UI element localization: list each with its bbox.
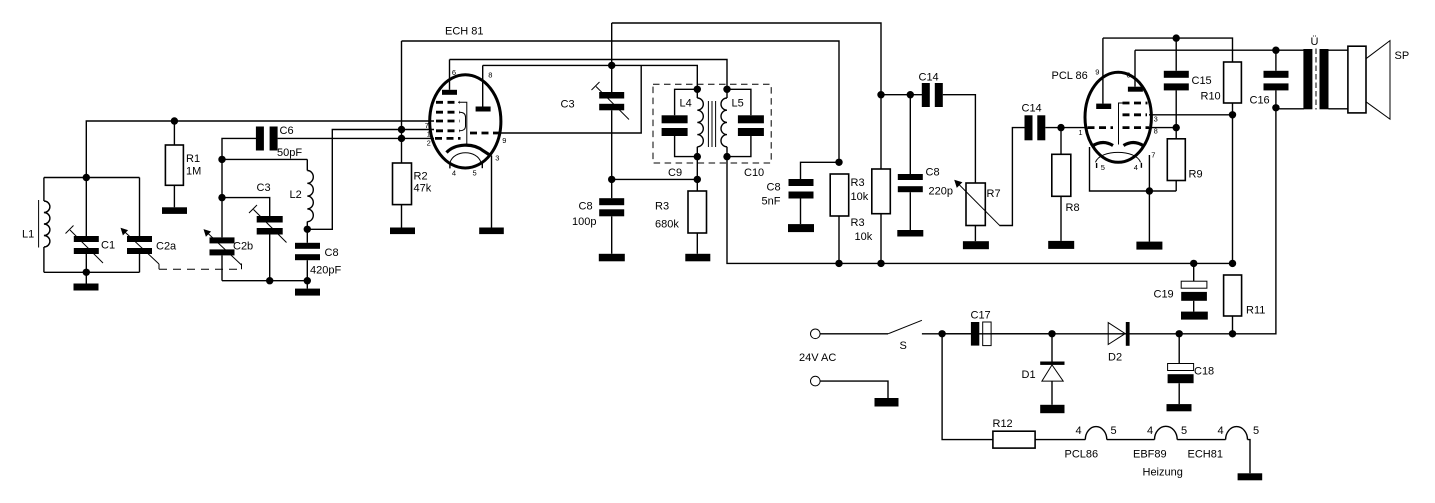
svg-text:Heizung: Heizung [1143,467,1183,479]
wire: C6 right to ECH81 pin 2 [278,137,434,139]
inductor L2 [306,159,308,170]
capacitor C19 (electrolytic) [1193,263,1195,281]
wire: L2 top [222,158,307,160]
node: R3 10k second top [877,91,884,98]
svg-text:3: 3 [1154,115,1158,124]
svg-text:50pF: 50pF [277,147,302,159]
resistor R2 [393,163,412,205]
ECH81 cathode lead (pin 3) [491,156,493,228]
svg-text:L1: L1 [22,229,34,241]
ECH81 bottom dome [450,153,481,163]
inductor L1 [44,201,50,247]
node: R3 680k top [694,176,701,183]
svg-text:R1: R1 [186,153,200,165]
wire: C3 top lead [222,198,270,216]
node: ECH81 pin1 net [398,126,405,133]
node: B+ bus / R11 top [1229,260,1236,267]
svg-text:C8: C8 [579,201,593,213]
capacitor C14 (first) [922,83,930,107]
node: C3 bottom / detector line [608,176,615,183]
ECH81 grid g1 dashes (pin 2) [435,137,461,140]
svg-text:L5: L5 [732,98,744,110]
svg-text:R3: R3 [851,217,865,229]
svg-text:R7: R7 [987,188,1001,200]
wire: triode anode rail to R10 [1103,38,1233,62]
svg-text:5: 5 [1253,425,1259,437]
svg-text:C8: C8 [325,247,339,259]
capacitor C6 [256,127,264,151]
PCL86 heater stubs [1096,163,1098,168]
wire: tank top rail [44,177,140,179]
svg-text:L2: L2 [290,189,302,201]
svg-text:S: S [900,340,907,352]
capacitor C8 5nF [789,179,814,186]
svg-text:9: 9 [1095,68,1099,77]
resistor R8 [1060,128,1062,155]
svg-text:D2: D2 [1108,352,1122,364]
wire: g1 to C15/R9 node [1150,127,1176,129]
node: tank top / C1 [83,174,90,181]
wire: heater feed down from C17 node [942,334,993,440]
svg-text:4: 4 [1147,425,1153,437]
PCL86 g3 dashes [1123,102,1148,105]
wire: R1 bottom lead [173,185,175,207]
wire: R1 top lead [173,121,175,145]
node: L5 bottom [723,153,730,160]
svg-text:3: 3 [495,154,499,163]
transformer core lines [707,101,709,147]
wire: L5 bottom to B+ bus [727,157,1233,264]
terminal 24V AC lower [811,376,821,386]
node: R3 10k top [835,159,842,166]
heater ECH81 [1226,427,1248,440]
svg-text:6: 6 [452,68,456,77]
resistor R12 [993,431,1035,448]
ECH81 grid g4 dashes [436,111,460,114]
wire: R2 bottom lead [401,205,403,228]
wire: heater link 1 [1107,439,1155,441]
capacitor C10 [727,89,751,115]
svg-text:C10: C10 [744,167,764,179]
svg-text:420pF: 420pF [310,265,341,277]
wire: L4 bottom to detector node [696,157,698,191]
wire: C6 left lead from osc node [222,138,256,237]
svg-text:C16: C16 [1250,95,1270,107]
capacitor C8 420pF [306,229,308,243]
wire: triode anode to C3/L4 [483,65,698,89]
PCL86 triode grid dashes (pin 1) [1088,126,1114,129]
svg-text:ECH81: ECH81 [1188,449,1223,461]
ground under C8 420pF [306,281,308,289]
svg-text:C14: C14 [1022,103,1042,115]
capacitor C2b (variable) [210,237,235,243]
node: cathode junction [1146,187,1153,194]
capacitor C15 [1175,38,1177,71]
ECH81 internal g5-cathode strap [458,102,467,146]
wire: tank bottom rail [44,271,140,273]
inductor L5 [726,89,728,98]
svg-text:L4: L4 [680,98,692,110]
svg-text:C3: C3 [257,182,271,194]
svg-text:C17: C17 [971,310,991,322]
capacitor C3 (IF trimmer) [599,92,624,99]
svg-text:9: 9 [502,136,506,145]
svg-text:2: 2 [427,139,431,148]
node: R8 top [1057,124,1064,131]
wire: L1 bottom lead [43,247,45,272]
node: OPT primary bottom [1272,104,1279,111]
svg-text:47k: 47k [414,183,432,195]
ground under C8 100p [599,254,625,261]
svg-text:24V AC: 24V AC [799,352,836,364]
node: g2 tap on R10 line [1229,111,1236,118]
wire: R12 to heater chain [1035,439,1085,441]
PCL86 right cathode lead (pin 7) [1148,155,1150,242]
wire: terminal to switch [820,333,888,335]
svg-text:Ü: Ü [1311,36,1319,48]
svg-text:PCL 86: PCL 86 [1052,70,1088,82]
wire: C8 5nF branch [801,162,840,179]
capacitor C3 (osc trimmer) [257,216,283,223]
tube ECH81 envelope [430,75,501,168]
node: C15 top [1173,34,1180,41]
svg-text:C2a: C2a [156,241,177,253]
capacitor C14 (second) [1025,115,1033,140]
svg-text:C18: C18 [1194,366,1214,378]
node: C8 220p tap [907,91,914,98]
node: R3 10k bottom on bus [835,260,842,267]
svg-text:R12: R12 [993,418,1013,430]
capacitor C1 (trimmer) [74,236,99,242]
svg-text:ECH 81: ECH 81 [445,26,484,38]
speaker SP [1348,46,1366,113]
capacitor C8 220p [909,95,911,174]
wire: detector out to C14 [881,94,922,96]
wire: osc bottom rail [222,280,307,282]
svg-text:C8: C8 [926,167,940,179]
svg-text:C14: C14 [919,72,939,84]
resistor R10 [1224,62,1242,103]
node: L4 top [694,86,701,93]
heater EBF89 [1155,426,1178,439]
resistor R3 10k (second) [880,95,882,169]
svg-text:4: 4 [1076,425,1082,437]
svg-text:D1: D1 [1022,369,1036,381]
capacitor C2a (variable) [127,236,152,242]
PCL86 cathode arc left [1092,142,1114,146]
svg-text:220p: 220p [929,186,953,198]
inductor L4 [696,89,698,98]
ground at heater end [1238,473,1263,480]
node: C15 bottom / g1 [1173,124,1180,131]
node: R1 top junction [171,117,178,124]
ground under C18 [1167,404,1192,411]
output transformer secondary winding [1320,49,1329,109]
ECH81 grid g2 dashes (pin 1) [436,129,460,132]
node: C3 tap [218,194,225,201]
switch S blade [888,320,922,334]
ground under D1 [1040,405,1064,413]
PCL86 internal g3-cathode strap [1119,103,1125,145]
IF transformer dashed box [653,84,771,163]
ground under C8 5nF [788,224,814,232]
node: C8 420pF bottom [304,277,311,284]
wire: C14 to R7 top [943,95,976,183]
potentiometer R7 [966,183,985,226]
PCL86 g1 dashes (pin 8) [1123,126,1150,129]
wire: heptode anode to L5 top [450,60,728,90]
svg-text:R10: R10 [1201,91,1221,103]
svg-text:680k: 680k [655,219,679,231]
terminal 24V AC upper [811,329,821,339]
svg-text:4: 4 [1218,425,1224,437]
wire: rectifier rail y334 [942,333,1232,335]
svg-text:1M: 1M [186,166,201,178]
svg-text:C1: C1 [101,240,115,252]
node: second R3 bottom on bus [877,260,884,267]
wire: C17 leads [942,333,971,335]
diode D1 [1051,334,1053,362]
svg-text:8: 8 [488,71,492,80]
ECH81 triode anode (pin 8) [476,107,491,112]
svg-text:C6: C6 [280,125,294,137]
node: L5 top [723,86,730,93]
capacitor C16 [1275,50,1277,71]
node: D1 tap [1048,330,1055,337]
wire: R7 wiper to C14 second [1000,128,1025,226]
resistor R3 10k (first) [830,174,849,216]
PCL86 triode anode (pin 9) [1096,104,1111,109]
wire: R2 / AVC riser [401,41,403,163]
node: L2 tap [218,156,225,163]
ground under R1 [162,207,187,214]
ground under PCL86 cathode [1136,242,1162,250]
tube PCL86 envelope [1085,72,1151,162]
output transformer primary winding [1276,108,1304,110]
wire: lower terminal to ground [820,381,888,398]
svg-text:5: 5 [1101,163,1105,172]
ground under C8 220p [897,230,923,237]
capacitor C8 100p [599,198,624,205]
resistor R1 [165,145,183,185]
ground stub under tank [85,272,87,283]
dashed gang line C2a-C2b [158,264,160,269]
svg-text:5: 5 [1181,425,1187,437]
ECH81 grid g3 dashes (pin 7) [436,120,460,123]
svg-text:5: 5 [473,169,477,178]
svg-text:PCL86: PCL86 [1065,449,1099,461]
svg-text:C19: C19 [1154,289,1174,301]
wire: C14 to PCL86 pin 1 [1045,127,1086,129]
wire: C16 down to rectifier rail [1233,108,1276,334]
wire: switch to C17 node [922,333,942,335]
node: R11 bottom on rectifier rail [1229,330,1236,337]
ground under R2 [390,228,415,235]
svg-text:4: 4 [452,169,456,178]
svg-text:C3: C3 [561,99,575,111]
node: ECH81 pin2 net [398,135,405,142]
svg-text:R2: R2 [414,171,428,183]
svg-text:R11: R11 [1246,305,1265,317]
capacitor C9 [675,89,698,115]
wire: heater link 2 [1177,439,1225,441]
node: L4 bottom [694,153,701,160]
svg-text:R3: R3 [851,177,865,189]
svg-text:5nF: 5nF [762,196,781,208]
wire: L1 top lead [43,178,45,202]
wire: C3 IF trimmer riser [611,23,613,92]
wire: C1 top lead [85,178,87,237]
wire: L2 bottom to ECH81 pin 1 [307,130,434,230]
wire: pentode anode to output transformer [1135,49,1304,51]
svg-text:C9: C9 [668,167,682,179]
ECH81 triode grid dashes (pin 9) [470,132,499,135]
PCL86 left cathode lead [1090,147,1177,191]
svg-text:5: 5 [1111,425,1117,437]
svg-text:10k: 10k [851,191,869,203]
wire: detector line to R3 680k [612,178,698,180]
PCL86 g2 dashes (pin 3) [1123,113,1148,116]
ECH81 heater stubs [449,164,451,169]
transformer core dashed [1315,49,1317,110]
wire: heater chain end to ground [1248,440,1251,474]
node: C3 top / triode anode net [608,62,615,69]
node: L2 bottom / C8 420pF [304,226,311,233]
ground under lower terminal [875,398,899,407]
wire: g2 to R10 bottom [1149,114,1233,116]
wire: R7 bottom lead [974,226,976,242]
PCL86 bottom dome [1096,152,1141,162]
svg-text:EBF89: EBF89 [1133,449,1167,461]
ground under R8 [1048,241,1074,249]
capacitor C17 [971,322,979,346]
ECH81 heptode anode (pin 6) [442,90,457,95]
ground under R3 680k [685,254,710,261]
wire: long bus y41 to R3 10k [402,41,840,162]
wire: top bus y23 [612,23,881,95]
svg-text:R3: R3 [655,201,669,213]
resistor R11 [1224,275,1242,316]
wire: C2a top lead [139,178,141,237]
ECH81 g2-g4 bracket [460,112,466,131]
ground under R7 [963,241,989,249]
svg-text:1: 1 [1078,128,1082,137]
ground under C19 [1181,312,1208,320]
node: OPT primary top [1272,47,1279,54]
node: C19 tap on B+ bus [1190,260,1197,267]
capacitor C18 (electrolytic) [1178,334,1180,364]
svg-text:C15: C15 [1192,75,1212,87]
svg-text:4: 4 [1134,163,1138,172]
svg-text:R8: R8 [1066,202,1080,214]
svg-text:SP: SP [1395,50,1410,62]
node: tank bottom / ground [83,269,90,276]
PCL86 cathode arc right [1124,142,1145,146]
ECH81 grid g5 dashes [436,101,460,104]
svg-text:7: 7 [1151,151,1155,160]
node: C18 tap [1176,330,1183,337]
diode D2 [1108,323,1125,345]
svg-text:R9: R9 [1189,169,1203,181]
svg-text:1: 1 [427,130,431,139]
svg-text:C8: C8 [767,182,781,194]
wire: antenna tank top to ECH81 pin 7 [86,121,434,178]
ECH81 cathode arc [447,145,491,155]
resistor R3 680k [688,191,707,233]
svg-text:10k: 10k [855,231,873,243]
heater PCL86 [1085,427,1107,440]
wire: triode grid to anode net [500,65,642,133]
svg-text:6: 6 [1126,71,1130,80]
node: C3 bottom [266,277,273,284]
node: switch side of C17 [938,330,945,337]
PCL86 pentode anode (pin 6) [1128,87,1143,92]
svg-text:100p: 100p [572,216,596,228]
svg-text:C2b: C2b [233,241,253,253]
resistor R9 [1175,181,1177,192]
ground under ECH81 cathode [479,228,504,235]
